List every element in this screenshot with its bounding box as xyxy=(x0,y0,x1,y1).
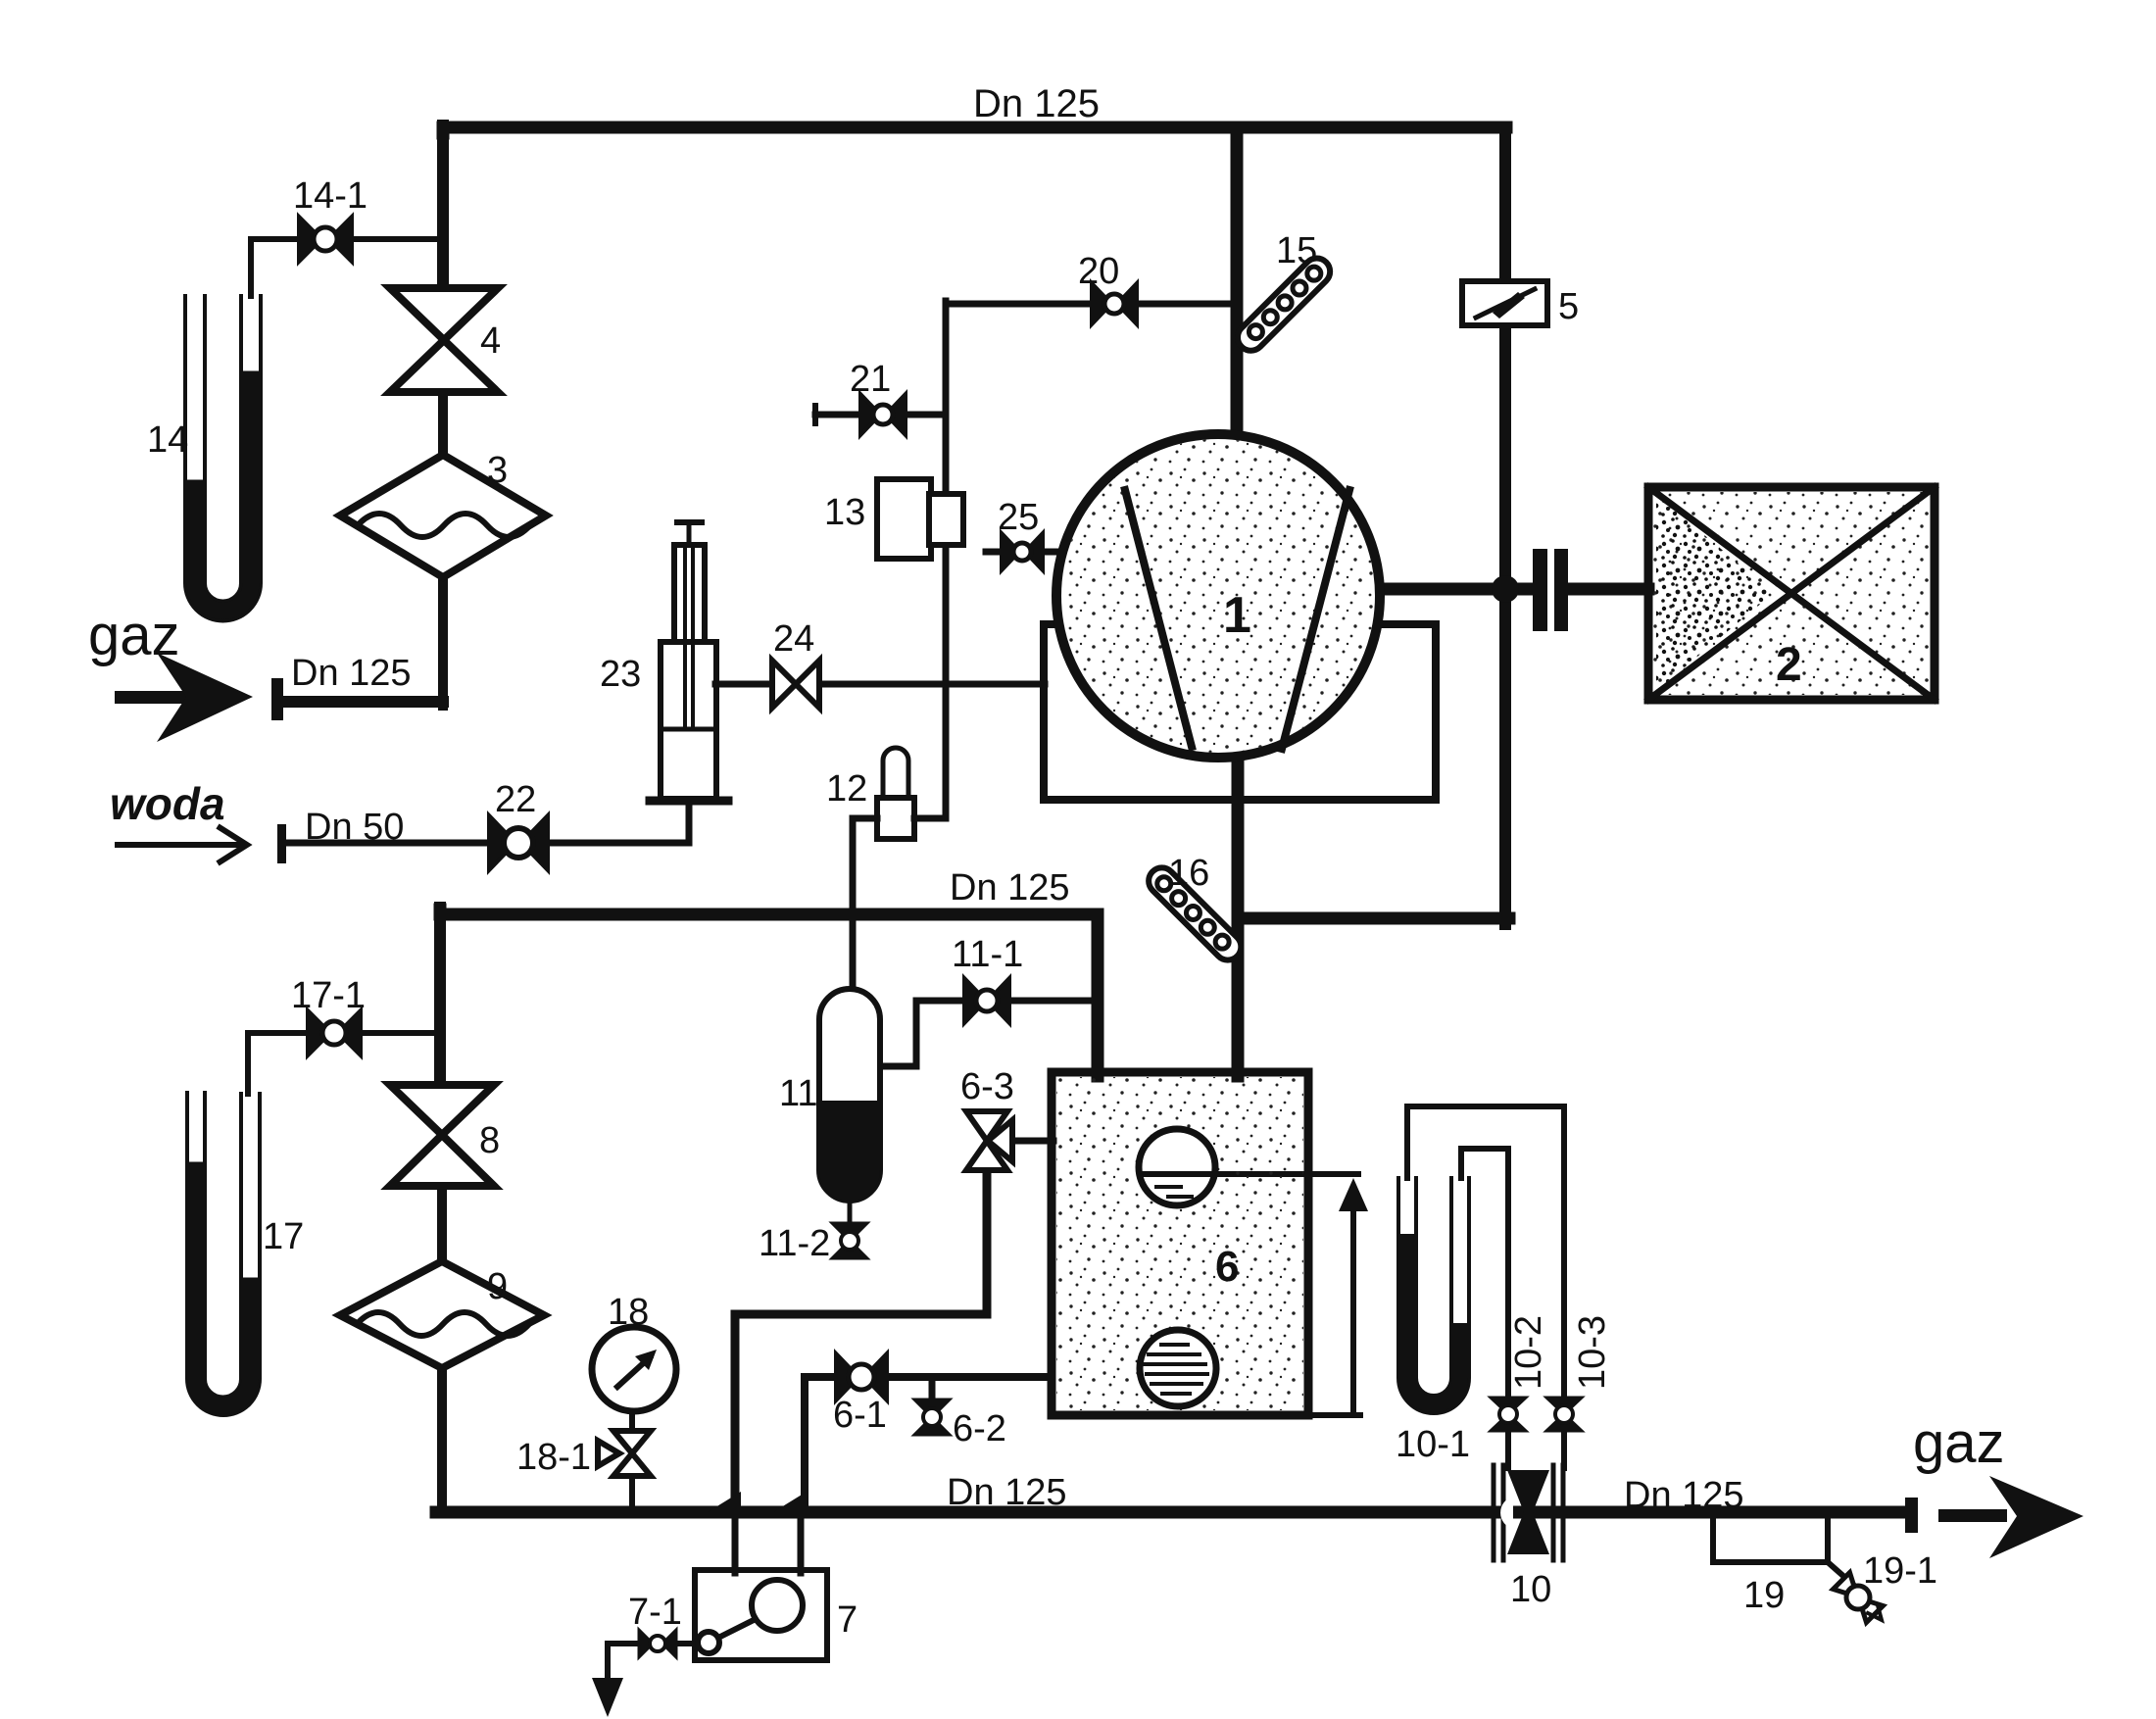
svg-text:gaz: gaz xyxy=(1913,1411,2005,1475)
gauge valve 18-1 xyxy=(598,1431,651,1476)
svg-text:17: 17 xyxy=(263,1216,304,1257)
wire manometer14 branch xyxy=(251,239,443,296)
valve 7-1 xyxy=(639,1630,676,1657)
svg-text:14: 14 xyxy=(147,419,188,461)
wire device12 to accumulator11 xyxy=(853,818,877,986)
wire motor shaft xyxy=(1377,583,1531,596)
wire water line valve22 to lubricator23 xyxy=(548,840,689,847)
wire stem filter9 to bottom pipe xyxy=(437,1366,447,1512)
wire box5 down to shaft crossing and bottom header xyxy=(1499,323,1511,924)
wire valve7-1 to drain elbow xyxy=(608,1644,639,1684)
wire accumulator11 to valve11-1 xyxy=(882,1001,964,1066)
flow switch 5 xyxy=(1462,281,1547,325)
wire gas inlet pipe Dn125 xyxy=(277,696,443,708)
wire instrument header vertical xyxy=(943,301,950,684)
svg-text:21: 21 xyxy=(850,359,891,400)
wire manometer17 branch xyxy=(248,1033,440,1094)
SMALL BALL VALVES xyxy=(299,217,1582,1657)
gas outlet arrow xyxy=(1938,1476,2083,1558)
svg-text:6-3: 6-3 xyxy=(960,1066,1014,1107)
arrow level standpipe up xyxy=(1339,1178,1368,1211)
svg-text:18: 18 xyxy=(608,1292,649,1333)
filter 9 xyxy=(340,1261,544,1368)
wire compressor bottom drop to tank6 xyxy=(1232,755,1245,1076)
svg-text:2: 2 xyxy=(1776,639,1802,691)
svg-text:Dn 125: Dn 125 xyxy=(947,1472,1067,1513)
valve 25 xyxy=(1002,533,1043,570)
compressor 1 xyxy=(1056,434,1380,758)
crankcase housing under compressor xyxy=(1044,624,1436,800)
wire oil line valve24 to crankcase xyxy=(817,681,1045,688)
svg-text:17-1: 17-1 xyxy=(291,975,366,1016)
valve 14-1 xyxy=(299,217,352,262)
svg-text:23: 23 xyxy=(600,654,641,695)
wire bottom discharge pipe Dn125 xyxy=(436,1506,1905,1519)
wire stem filter3 to inlet pipe xyxy=(438,574,448,706)
heater circle in tank xyxy=(1140,1330,1216,1406)
gate valve 4 xyxy=(390,288,498,392)
svg-text:19: 19 xyxy=(1743,1575,1785,1616)
svg-text:10-2: 10-2 xyxy=(1508,1315,1549,1390)
wire valve10-2 to meter10 xyxy=(1505,1431,1511,1468)
manometer 14 xyxy=(185,296,261,620)
svg-text:6-2: 6-2 xyxy=(953,1408,1006,1449)
three-way valve 6-3 xyxy=(966,1111,1012,1170)
filter 3 xyxy=(340,455,546,577)
valve 20 xyxy=(1092,283,1137,324)
wire manometer10-1 outer loop xyxy=(1407,1106,1564,1398)
svg-text:Dn 125: Dn 125 xyxy=(973,82,1100,125)
svg-text:6-1: 6-1 xyxy=(833,1395,887,1436)
svg-text:8: 8 xyxy=(479,1120,500,1161)
wire lubricator23 drain stem xyxy=(686,806,693,843)
svg-text:Dn 125: Dn 125 xyxy=(291,653,412,694)
wire valve6-3 to tank xyxy=(1012,1138,1053,1145)
valve 6-1 xyxy=(836,1353,887,1400)
wire left suction riser xyxy=(437,125,449,290)
svg-text:16: 16 xyxy=(1168,853,1209,894)
wire pump7 drain to valve7-1 xyxy=(676,1641,698,1646)
wire lower riser manometer branch xyxy=(434,908,446,1088)
gas inlet arrow xyxy=(115,653,253,742)
wire water line Dn50 xyxy=(283,840,489,847)
svg-text:6: 6 xyxy=(1215,1243,1239,1291)
svg-text:11-1: 11-1 xyxy=(952,934,1023,975)
node shaft crossing xyxy=(1492,575,1519,603)
restriction 19 xyxy=(1713,1518,1852,1584)
wire compressor top connection xyxy=(1231,127,1244,437)
valve 21 xyxy=(860,394,906,435)
svg-text:22: 22 xyxy=(495,779,536,820)
svg-text:12: 12 xyxy=(826,768,867,810)
wire manometer10-1 inner loop xyxy=(1461,1149,1508,1398)
svg-text:24: 24 xyxy=(773,618,814,660)
wire valve18-1 stem to pipe xyxy=(629,1476,635,1512)
water pipe tick xyxy=(277,824,286,863)
svg-text:10-1: 10-1 xyxy=(1396,1424,1470,1465)
valve 11-1 xyxy=(964,978,1009,1023)
wire valve21 end tick xyxy=(812,406,818,423)
wire valve6-1 to drop leg xyxy=(805,1377,836,1512)
arrow drain down xyxy=(592,1678,623,1717)
valve 11-2 vertical xyxy=(832,1223,867,1258)
thermometer 16 xyxy=(1144,862,1247,965)
svg-text:5: 5 xyxy=(1558,286,1579,327)
wire valve21 stub xyxy=(815,412,946,418)
valve 22 xyxy=(489,815,548,870)
manometer 17 xyxy=(187,1093,260,1415)
wire valve25 stub xyxy=(986,549,1063,556)
svg-text:7-1: 7-1 xyxy=(628,1592,682,1633)
accumulator 11 xyxy=(819,989,880,1223)
wire tank oil line valve6-1 xyxy=(886,1373,1052,1381)
wire valve11-1 to tank inlet line xyxy=(1007,998,1098,1005)
svg-text:gaz: gaz xyxy=(88,604,180,667)
valve 24 xyxy=(772,661,819,708)
valve 10-3 vertical xyxy=(1546,1398,1582,1431)
valve 10-2 vertical xyxy=(1491,1398,1526,1431)
FLOW ARROWS AND TICKS xyxy=(115,653,2083,1558)
pump 7 xyxy=(695,1570,827,1660)
manometer 10-1 xyxy=(1398,1178,1469,1413)
arrow junction drain left xyxy=(708,1492,741,1512)
wire tank level standpipe xyxy=(1350,1190,1356,1415)
valve 17-1 xyxy=(308,1010,361,1056)
valve 19-1 xyxy=(1834,1573,1884,1623)
svg-text:10-3: 10-3 xyxy=(1572,1315,1613,1390)
arrow junction oil left xyxy=(773,1492,807,1512)
wire discharge vertical to box5 xyxy=(1499,127,1511,283)
wire pump suction stub left xyxy=(732,1514,739,1573)
wire stem valve4 to filter3 xyxy=(438,390,448,459)
svg-text:4: 4 xyxy=(480,320,501,362)
wire gauge18 stem xyxy=(629,1411,635,1431)
device 12 oil pressure sensor xyxy=(877,748,914,839)
svg-text:13: 13 xyxy=(824,492,865,533)
tank 6 xyxy=(1052,1072,1308,1415)
lubricator 23 xyxy=(650,522,728,801)
coupling xyxy=(1533,549,1568,631)
gas outlet tick xyxy=(1905,1498,1918,1533)
svg-text:11-2: 11-2 xyxy=(759,1223,830,1264)
valve 6-2 vertical xyxy=(914,1400,950,1435)
svg-text:Dn 50: Dn 50 xyxy=(305,807,404,848)
instrument block 13 xyxy=(877,479,963,559)
svg-text:14-1: 14-1 xyxy=(293,175,367,217)
wire pump suction stub right xyxy=(798,1514,805,1573)
motor 2 xyxy=(1648,487,1935,700)
wire tank bottom extension xyxy=(1308,1412,1360,1418)
svg-text:20: 20 xyxy=(1078,251,1119,292)
wire valve20 line xyxy=(946,301,1237,308)
svg-text:15: 15 xyxy=(1276,230,1317,271)
water inlet arrow xyxy=(115,826,247,863)
svg-text:18-1: 18-1 xyxy=(516,1437,591,1478)
svg-text:1: 1 xyxy=(1223,587,1251,644)
svg-text:11: 11 xyxy=(779,1073,817,1114)
wire top suction pipe Dn125 xyxy=(443,127,1506,133)
wire shaft coupling to motor xyxy=(1568,583,1648,596)
svg-text:25: 25 xyxy=(998,497,1039,538)
wire header down to device12 xyxy=(914,684,946,818)
level gauge circle in tank xyxy=(1139,1129,1215,1205)
svg-text:7: 7 xyxy=(837,1599,857,1641)
wire valve6-3 drain xyxy=(735,1172,987,1512)
wire valve6-2 stub xyxy=(929,1377,936,1400)
pressure gauge 18 xyxy=(592,1327,676,1411)
wire valve10-3 to meter10 xyxy=(1561,1431,1567,1468)
gate valve 8 xyxy=(390,1085,494,1186)
svg-text:9: 9 xyxy=(487,1266,508,1307)
svg-text:10: 10 xyxy=(1510,1569,1551,1610)
svg-text:19-1: 19-1 xyxy=(1863,1550,1937,1592)
svg-text:Dn 125: Dn 125 xyxy=(1624,1475,1744,1516)
svg-text:3: 3 xyxy=(487,450,508,491)
gas inlet pipe tick xyxy=(271,678,283,720)
wire tank level line xyxy=(1182,1171,1358,1177)
wire lubricator23 outlet xyxy=(715,681,774,688)
orifice meter 10 xyxy=(1494,1465,1563,1560)
wire stem valve8 to filter9 xyxy=(437,1184,447,1265)
svg-text:woda: woda xyxy=(110,778,225,829)
wire middle bypass pipe Dn125 xyxy=(440,909,1098,1076)
thermometer 15 xyxy=(1232,253,1335,356)
svg-text:Dn 125: Dn 125 xyxy=(950,867,1070,909)
wire discharge bottom header xyxy=(1238,912,1509,925)
